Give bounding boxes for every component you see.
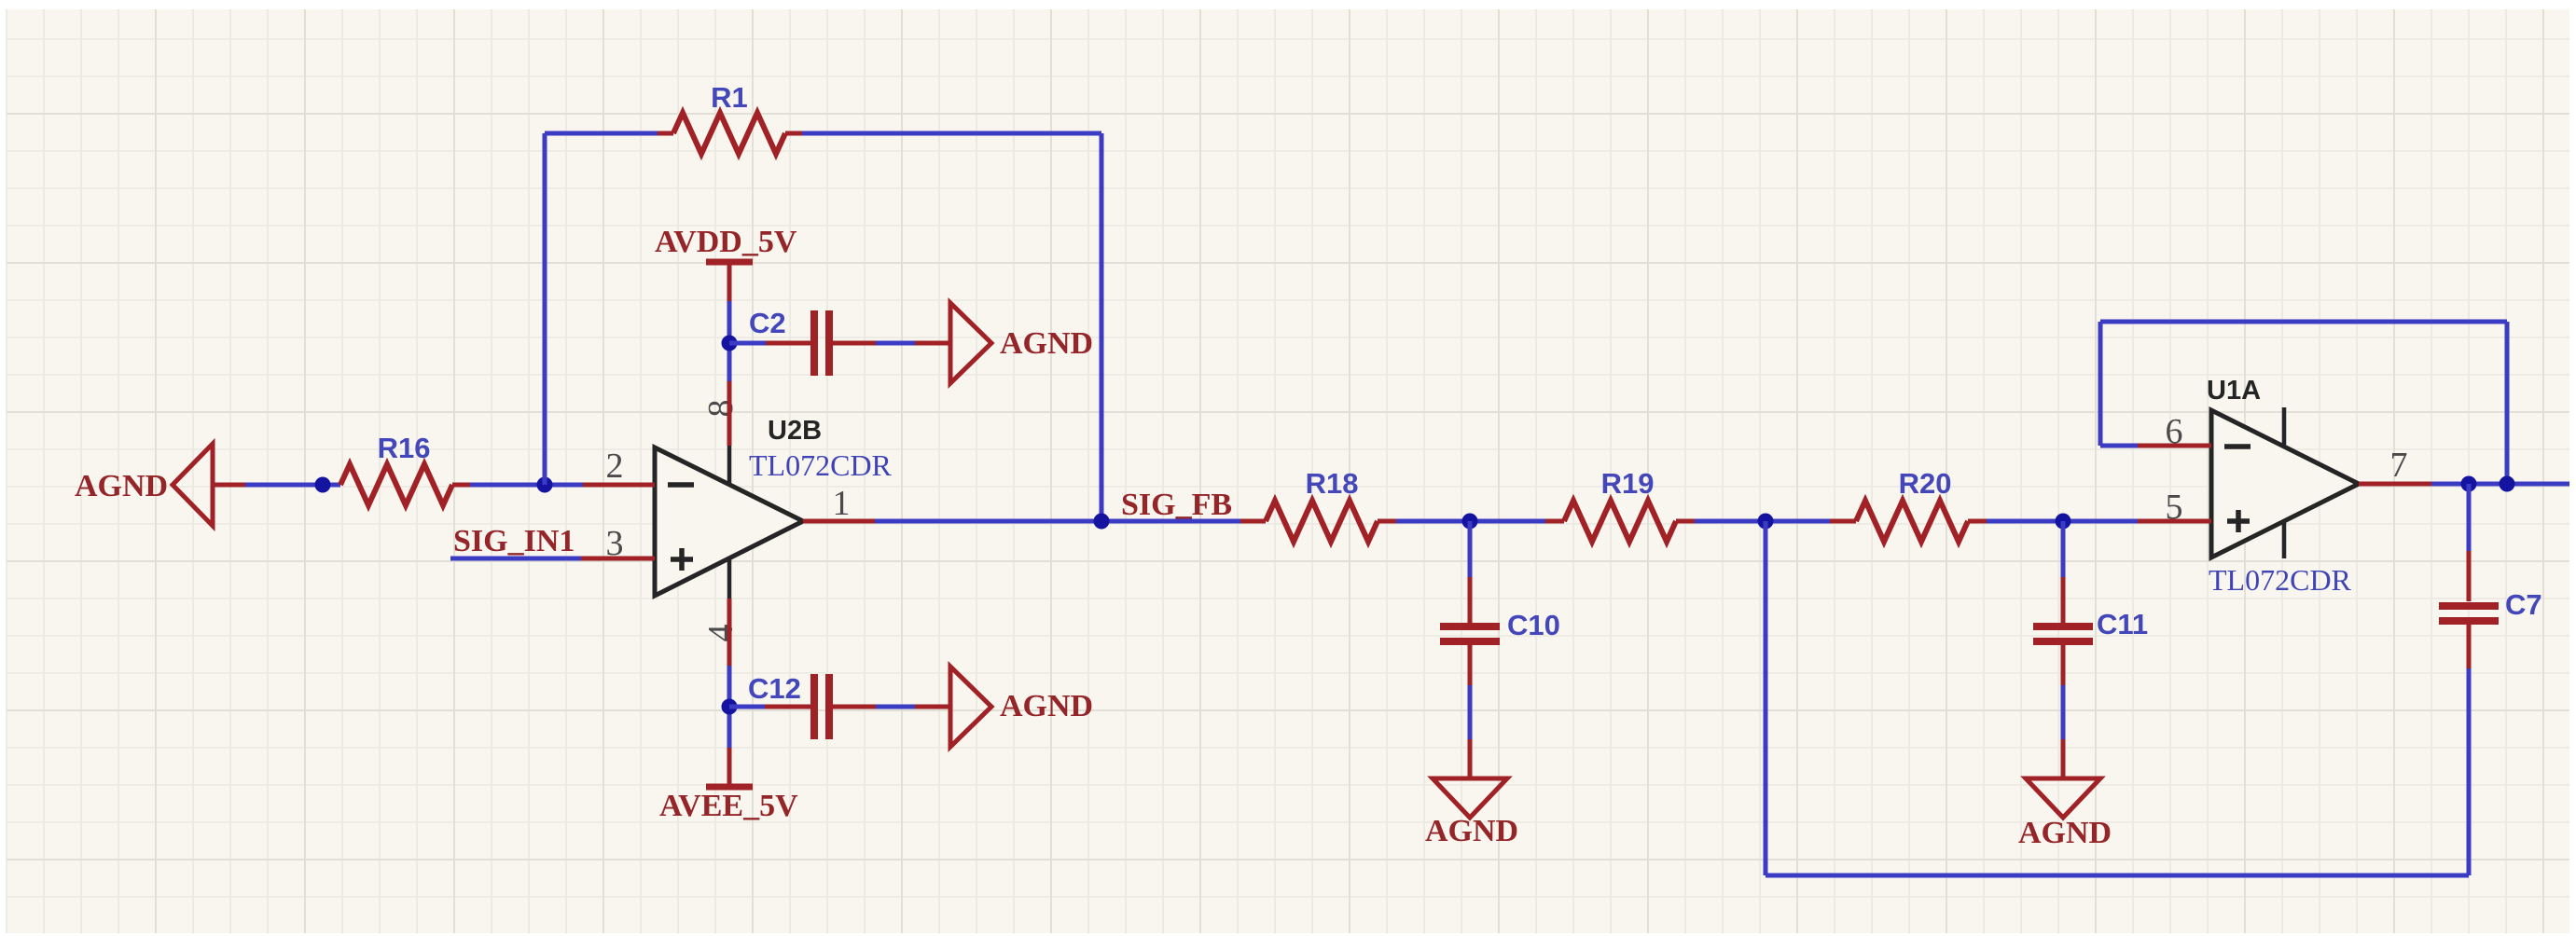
wire node2 down (1764, 521, 1768, 875)
junction dot AVDD/C2 (722, 336, 738, 351)
wire feedback U1A vertical left (2098, 322, 2103, 446)
svg-text:U1A: U1A (2207, 376, 2261, 406)
capacitor C12 (814, 674, 829, 739)
U1A power stub bottom (2282, 521, 2287, 558)
resistor R19 (1545, 501, 1695, 542)
svg-text:C7: C7 (2505, 588, 2542, 621)
resistor R20 (1830, 501, 1987, 542)
U2B pin 2 (583, 483, 655, 488)
svg-text:TL072CDR: TL072CDR (749, 448, 893, 482)
capacitor C7 (2439, 606, 2499, 621)
wire feedback vertical right (1100, 133, 1104, 521)
junction node feedback/pin2 (537, 477, 553, 493)
wire R20 to node3 (1987, 519, 2138, 524)
svg-text:R19: R19 (1601, 467, 1655, 500)
power port AVEE_5V (659, 787, 798, 823)
wire C12 left (729, 705, 810, 709)
U2B pin4 wire (727, 599, 732, 666)
junction node1 (1462, 514, 1478, 530)
U1A output pin 7 (2359, 482, 2431, 487)
wire to U1A pin6 (2100, 444, 2138, 448)
wire node1 down to C10 (1468, 521, 1473, 623)
power port AGND (C11) (2018, 778, 2112, 850)
capacitor C11 (2033, 626, 2093, 641)
wire C7 to bottom loop (2467, 625, 2472, 875)
junction node3 (2056, 514, 2071, 530)
power port AGND (C10) (1425, 778, 1518, 848)
wire feedback U1A vertical right (2505, 322, 2510, 484)
junction dot output/C7 (2461, 476, 2477, 492)
wire output down to C7 (2467, 484, 2472, 601)
svg-text:7: 7 (2390, 446, 2408, 485)
svg-text:AVDD_5V: AVDD_5V (655, 225, 797, 259)
svg-text:AGND: AGND (1425, 814, 1518, 848)
resistor R16 (340, 464, 470, 505)
wire C10 to ground (1468, 645, 1473, 778)
power port AGND (C12) (950, 667, 1093, 747)
junction dot SIG_FB (1094, 514, 1110, 530)
svg-text:C10: C10 (1507, 609, 1560, 641)
U2B pin 8 stub (727, 446, 732, 483)
svg-text:TL072CDR: TL072CDR (2209, 563, 2352, 597)
U2B pin 4 stub (727, 557, 732, 599)
svg-text:4: 4 (701, 625, 741, 642)
wire C12 junction vertical (727, 666, 732, 748)
op-amp U2B triangle (655, 447, 803, 596)
svg-text:R16: R16 (378, 432, 431, 464)
wire top left to R1 (545, 131, 658, 136)
svg-text:1: 1 (833, 484, 851, 523)
op-amp U1A triangle (2211, 410, 2359, 557)
svg-text:6: 6 (2166, 412, 2183, 451)
wire feedback U1A top (2100, 320, 2507, 324)
svg-text:8: 8 (701, 400, 741, 418)
U1A pin 6 (2138, 444, 2211, 448)
wire feedback vertical left (543, 133, 547, 485)
wire R16 to U2B pin2 (470, 483, 583, 488)
wire junction to AVEE bar (727, 748, 732, 785)
wire R19 to node2 (1695, 519, 1830, 524)
svg-text:AGND: AGND (75, 469, 168, 503)
junction dot AVEE/C12 (722, 699, 738, 715)
resistor R18 (1240, 501, 1396, 542)
wire AVDD to C2 junction (727, 301, 732, 381)
U1A minus input mark (2224, 444, 2251, 449)
svg-text:AGND: AGND (2018, 816, 2112, 850)
capacitor C2 (814, 310, 829, 376)
svg-text:SIG_IN1: SIG_IN1 (453, 524, 575, 558)
power port AGND (C2) (950, 303, 1093, 383)
svg-text:SIG_FB: SIG_FB (1121, 488, 1232, 522)
U1A plus input mark (2227, 510, 2250, 532)
resistor R1 (658, 113, 802, 154)
wire node3 down to C11 (2061, 521, 2066, 623)
svg-text:AGND: AGND (1000, 689, 1093, 723)
wire C12 right (833, 705, 950, 709)
svg-text:3: 3 (606, 524, 624, 563)
svg-text:R1: R1 (711, 81, 748, 114)
junction node2 (1758, 514, 1774, 530)
wire R1 to feedback vertical right (802, 131, 1101, 136)
svg-text:AVEE_5V: AVEE_5V (659, 789, 798, 823)
svg-text:R20: R20 (1899, 467, 1952, 500)
junction node at R16 left (315, 477, 331, 493)
wire junction to U2B pin8 (727, 381, 732, 446)
U2B output pin 1 (803, 519, 875, 524)
wire U1A output right (2431, 482, 2569, 487)
svg-text:R18: R18 (1306, 467, 1359, 500)
wire C11 to ground (2061, 645, 2066, 778)
svg-text:C12: C12 (748, 672, 801, 705)
wire C2 right (833, 341, 950, 346)
svg-text:U2B: U2B (768, 416, 822, 446)
wire SIG_IN1 to U2B pin3 (450, 557, 581, 561)
wire bottom horizontal (1766, 874, 2469, 878)
wire AGND to R16 (245, 483, 340, 488)
U2B pin 3 (581, 557, 655, 561)
svg-text:C2: C2 (749, 307, 786, 339)
wire U2B output to R18 (875, 519, 1240, 524)
capacitor C10 (1440, 626, 1500, 641)
svg-text:AGND: AGND (1000, 326, 1093, 361)
svg-text:C11: C11 (2097, 608, 2148, 640)
power port AGND (left) (75, 444, 245, 526)
U2B plus input mark (671, 548, 693, 571)
U1A power stub top (2282, 407, 2287, 445)
U2B minus input mark (668, 482, 694, 488)
svg-text:2: 2 (606, 447, 624, 486)
U1A pin 5 (2138, 519, 2211, 524)
svg-text:5: 5 (2166, 488, 2183, 527)
junction dot output/feedback (2500, 476, 2515, 492)
wire C2 left (729, 341, 766, 346)
power port AVDD_5V (655, 225, 797, 301)
wire R18 to node1 (1396, 519, 1545, 524)
